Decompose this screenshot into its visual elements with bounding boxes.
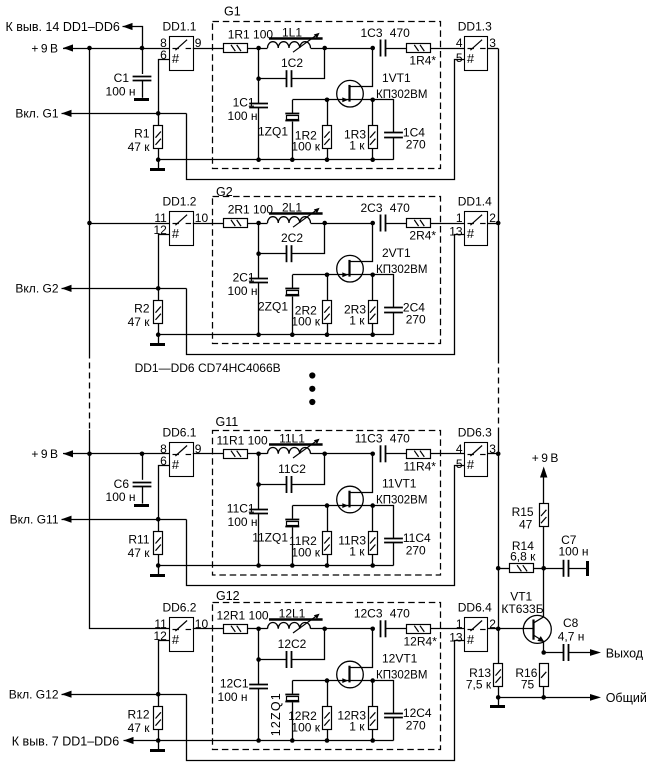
wire +9V rail to G11 row — [89, 430, 91, 454]
svg-text:R1: R1 — [134, 127, 150, 141]
transistor 11VT1 KP302VM (JFET) — [337, 486, 364, 513]
wire 2C1 to ground rail — [258, 283, 260, 335]
transistor 2VT1 KP302VM (JFET) — [337, 255, 364, 282]
oscillator block G12 dashed outline — [213, 603, 441, 750]
svg-text:13: 13 — [449, 225, 463, 239]
node emitter/C8/R16 junction — [541, 650, 546, 655]
wire block G1 ground rail — [158, 159, 393, 161]
inductor 12L1 adjustment arrow — [293, 615, 318, 633]
wire 12R4 to DD6.4 pin 1 — [431, 628, 465, 630]
wire 11R4 to DD6.3 pin 4 — [431, 453, 465, 455]
svg-text:11ZQ1: 11ZQ1 — [252, 530, 288, 544]
capacitor 1C3 470 — [380, 40, 382, 57]
svg-text:R12: R12 — [127, 708, 149, 722]
capacitor 2C4 270 — [384, 307, 403, 309]
wire 2R2 top lead — [327, 275, 329, 301]
off-page arrow Вкл. G12 — [62, 691, 72, 698]
wire DD6.3 output pin 3 to bus — [487, 453, 498, 455]
svg-text:100 н: 100 н — [106, 490, 136, 504]
svg-text:11C1: 11C1 — [227, 501, 255, 515]
node drain/1C3 junction — [370, 46, 375, 51]
node 2ZQ1/rail junction — [290, 332, 295, 337]
node R11/ground-rail junction — [156, 563, 161, 568]
analog switch DD6.3 — [465, 443, 488, 477]
wire 11R2 top lead — [327, 506, 329, 531]
wire 2R4 to DD1.4 pin 1 — [431, 223, 465, 225]
svg-text:1 к: 1 к — [349, 139, 365, 153]
svg-text:КП302ВМ: КП302ВМ — [376, 670, 427, 682]
node A gate/2R2 junction — [325, 273, 330, 278]
node enable/R12 junction — [156, 692, 161, 697]
svg-text:5: 5 — [456, 457, 463, 471]
wire 1R2 top lead — [327, 100, 329, 126]
svg-text:G2: G2 — [216, 185, 233, 199]
node enable/R11 junction — [156, 517, 161, 522]
svg-text:100 к: 100 к — [291, 546, 320, 560]
wire enable G1 routing to DD1.3 control pin 5 — [187, 60, 465, 180]
resistor R14 6.8k — [498, 568, 509, 570]
capacitor 1C1 100n — [249, 103, 268, 105]
svg-text:DD6.4: DD6.4 — [458, 600, 492, 614]
wire VT1 base lead — [498, 628, 533, 630]
svg-text:12R4*: 12R4* — [404, 634, 438, 648]
svg-text:DD6.1: DD6.1 — [162, 425, 196, 439]
svg-text:+ 9 В: + 9 В — [31, 41, 58, 55]
wire crystal 11ZQ1 to rail — [292, 527, 294, 565]
wire common rail — [498, 697, 590, 699]
node coil/11C2 junction — [322, 452, 327, 457]
svg-text:R11: R11 — [128, 533, 149, 547]
resistor 12R1 100 — [224, 625, 248, 634]
ground symbol below R11 — [158, 566, 160, 575]
wire +9V rail from G11 down to DD6.2 pin 11 — [90, 454, 170, 629]
svg-text:12R1 100: 12R1 100 — [217, 609, 269, 623]
svg-text:47 к: 47 к — [128, 140, 151, 154]
inductor 2L1 core bar — [269, 212, 323, 214]
wire gate line to crystal 1ZQ1 — [293, 99, 328, 101]
wire crystal 2ZQ1 to rail — [292, 297, 294, 335]
svg-text:47 к: 47 к — [128, 721, 151, 735]
off-page arrow + 9 В (row G1) — [63, 44, 73, 51]
ellipsis dots (continuation) — [309, 372, 315, 378]
node A gate/1R2 junction — [325, 98, 330, 103]
node 2R3/rail junction — [370, 332, 375, 337]
node 11C1/rail junction — [256, 563, 261, 568]
wire 1C1 branch down — [258, 48, 260, 103]
node R1/ground-rail junction — [156, 157, 161, 162]
svg-text:5: 5 — [456, 51, 463, 65]
wire 12C4 to rail — [393, 718, 395, 741]
node 11R2/rail junction — [325, 563, 330, 568]
resistor R13 7.5k — [494, 664, 503, 687]
svg-text:DD6.2: DD6.2 — [162, 600, 196, 614]
svg-text:DD1.2: DD1.2 — [162, 195, 196, 209]
node coil/12C2 junction — [322, 627, 327, 632]
svg-text:1R1 100: 1R1 100 — [228, 28, 274, 42]
off-page arrow К выв. 7 — [124, 737, 134, 744]
wire 2C3 to 2R4 — [386, 223, 407, 225]
resistor 12R3 1k — [369, 707, 378, 730]
ground symbol below R12 — [158, 741, 160, 750]
ground symbol on common rail — [498, 697, 500, 705]
svg-text:#: # — [467, 632, 475, 647]
crystal 2ZQ1 — [285, 288, 299, 290]
wire DD6.1 control pin to enable node — [159, 466, 170, 520]
wire bus to R13 — [498, 629, 500, 663]
oscillator block G2 dashed outline — [213, 197, 441, 344]
wire +9V rail dashed continuation — [89, 353, 91, 431]
wire coil to 2C3 node — [311, 223, 373, 225]
wire 11R3 top lead — [372, 506, 374, 531]
wire 12C2 right lead and riser — [292, 629, 325, 660]
svg-text:#: # — [172, 632, 180, 647]
resistor 2R2 100k — [323, 301, 332, 324]
resistor R16 75 — [540, 664, 549, 687]
svg-text:Вкл. G2: Вкл. G2 — [15, 282, 58, 296]
svg-text:100 н: 100 н — [228, 515, 258, 529]
node 12R3/rail junction — [370, 738, 375, 743]
wire 12R2 top lead — [327, 681, 329, 707]
wire output bus (solid lower) — [498, 434, 500, 629]
crystal 12ZQ1 — [285, 694, 299, 696]
analog switch DD6.2 — [170, 618, 194, 652]
svg-text:100 н: 100 н — [218, 690, 248, 704]
wire gate line to crystal 2ZQ1 — [293, 274, 328, 276]
resistor R15 47 — [540, 504, 549, 527]
svg-text:1C3: 1C3 — [360, 26, 382, 40]
wire 12C2 left lead — [259, 659, 287, 661]
capacitor 12C1 100n — [249, 684, 268, 686]
wire collector riser — [543, 568, 545, 617]
svg-text:13: 13 — [449, 631, 463, 645]
svg-text:G12: G12 — [216, 589, 240, 603]
node enable/R2 junction — [156, 286, 161, 291]
node 1R3/rail junction — [370, 157, 375, 162]
inductor 11L1 core bar — [269, 443, 323, 445]
svg-text:47 к: 47 к — [128, 315, 151, 329]
wire 12C1 to ground rail — [258, 689, 260, 741]
wire gate node to source node (through 2VT1) — [327, 274, 373, 276]
node R12/ground-rail junction — [156, 738, 161, 743]
node R16/common rail — [541, 695, 546, 700]
wire node B to 12C4 — [373, 681, 394, 714]
wire 2C1 branch down — [258, 223, 260, 278]
node bus/DD1.4 pin 2 — [496, 221, 501, 226]
svg-text:Вкл. G12: Вкл. G12 — [9, 688, 59, 702]
wire gate line to crystal 12ZQ1 — [293, 680, 328, 682]
node A gate/11R2 junction — [325, 503, 330, 508]
capacitor 11C4 270 — [384, 538, 403, 540]
svg-text:11VT1: 11VT1 — [382, 477, 417, 491]
off-page arrow Вкл. G1 — [62, 110, 72, 117]
node +9V rail corner at G2 — [87, 221, 92, 226]
svg-text:11R1 100: 11R1 100 — [217, 434, 268, 448]
wire DD1.1 control pin to enable node — [159, 60, 170, 114]
svg-text:11R4*: 11R4* — [404, 459, 437, 473]
svg-text:47: 47 — [519, 518, 533, 532]
wire 1C2 right lead and riser — [292, 49, 325, 79]
wire 12R1 to coil node — [248, 628, 268, 630]
svg-text:12L1: 12L1 — [279, 606, 306, 620]
analog switch DD6.4 — [465, 618, 488, 652]
svg-text:7,5 к: 7,5 к — [466, 678, 492, 692]
capacitor C8 4.7n — [544, 652, 564, 654]
ground symbol below R2 — [158, 335, 160, 344]
svg-text:100 н: 100 н — [228, 284, 258, 298]
ground symbol below C6 — [134, 504, 149, 507]
capacitor 12C3 470 — [380, 620, 382, 637]
svg-text:470: 470 — [390, 432, 410, 446]
svg-text:К выв. 14 DD1–DD6: К выв. 14 DD1–DD6 — [6, 20, 120, 34]
svg-text:К выв. 7 DD1–DD6: К выв. 7 DD1–DD6 — [12, 735, 119, 749]
chassis terminator bar after C7 — [586, 561, 589, 576]
node 1R2/rail junction — [325, 157, 330, 162]
svg-text:G11: G11 — [216, 415, 239, 429]
node coil/1C2 junction — [322, 46, 327, 51]
transistor 12VT1 KP302VM (JFET) — [337, 661, 364, 688]
wire 1C2 left lead — [259, 78, 287, 80]
capacitor 12C4 270 — [384, 713, 403, 715]
node bus/VT1 base junction — [496, 627, 501, 632]
svg-text:1: 1 — [456, 211, 463, 225]
wire enable G12 horizontal — [62, 694, 187, 696]
resistor R2 47k — [158, 288, 160, 300]
inductor 11L1 adjustment arrow — [293, 440, 318, 458]
node drain/12C3 junction — [370, 627, 375, 632]
wire DD1.1 pin 9 to 1R1 — [193, 48, 224, 50]
resistor R11 47k — [158, 519, 160, 531]
wire 2R1 to coil node — [248, 223, 268, 225]
crystal 1ZQ1 — [285, 113, 299, 115]
wire enable G2 routing to DD1.4 control pin 13 — [187, 235, 465, 355]
wire 1R3 top lead — [372, 100, 374, 126]
node enable/R1 junction — [156, 111, 161, 116]
off-page arrow Вкл. G11 — [62, 516, 72, 523]
wire output bus (solid upper) — [498, 49, 500, 358]
node R2/ground-rail junction — [156, 332, 161, 337]
svg-text:1C2: 1C2 — [281, 56, 303, 70]
analog switch DD1.3 — [465, 37, 488, 71]
capacitor C6 100n — [142, 454, 144, 480]
svg-text:12C2: 12C2 — [278, 637, 307, 651]
svg-text:6,8 к: 6,8 к — [510, 550, 536, 564]
resistor 11R3 1k — [369, 532, 378, 555]
ground symbol below C1 — [134, 98, 149, 101]
inductor 12L1 — [268, 623, 311, 629]
oscillator block G11 dashed outline — [213, 431, 441, 576]
resistor 1R2 100k — [323, 126, 332, 149]
wire DD1.4 output pin 2 to bus — [487, 223, 498, 225]
off-page arrow Общий — [590, 694, 601, 701]
wire +9V rail to DD1.2 pin 11 — [89, 49, 91, 353]
svg-text:Вкл. G1: Вкл. G1 — [15, 107, 58, 121]
svg-text:12C3: 12C3 — [354, 607, 383, 621]
node C6 tap — [140, 452, 145, 457]
node 12C1/rail junction — [256, 738, 261, 743]
wire DD1.3 output pin 3 to bus — [487, 48, 498, 50]
inductor 12L1 core bar — [269, 618, 323, 620]
wire 1C3 to 1R4 — [386, 48, 407, 50]
wire 1R3 bottom lead — [372, 149, 374, 160]
resistor 11R2 100k — [323, 532, 332, 555]
wire 2R3 top lead — [372, 275, 374, 301]
wire 12R3 top lead — [372, 681, 374, 707]
node 12ZQ1/rail junction — [290, 738, 295, 743]
resistor 2R4* — [407, 219, 431, 228]
wire DD6.2 control pin to enable node — [159, 641, 170, 695]
wire coil to 12C3 node — [311, 628, 373, 630]
node 1R1/1C1 junction — [256, 46, 261, 51]
svg-text:1 к: 1 к — [349, 314, 365, 328]
node +9V rail junction (G1) — [87, 46, 92, 51]
inductor 1L1 — [268, 42, 311, 48]
wire coil to 1C3 node — [311, 48, 373, 50]
wire К выв. 7 to G12 ground rail — [124, 740, 159, 742]
wire 1R2 bottom lead — [327, 149, 329, 160]
node 1ZQ1/rail junction — [290, 157, 295, 162]
svg-text:C8: C8 — [563, 616, 579, 630]
wire 11C4 to rail — [393, 543, 395, 566]
wire 1C1 to ground rail — [258, 108, 260, 160]
svg-text:4,7 н: 4,7 н — [558, 630, 585, 644]
wire 2R2 bottom lead — [327, 324, 329, 335]
svg-text:DD1.4: DD1.4 — [458, 195, 492, 209]
svg-text:100 к: 100 к — [291, 721, 320, 735]
wire coil to 11C3 node — [311, 453, 373, 455]
wire 2R3 bottom lead — [372, 324, 374, 335]
wire 11C1 to ground rail — [258, 514, 260, 566]
resistor 1R1 100 — [224, 44, 248, 53]
node +9V rail junction (G11) — [87, 452, 92, 457]
capacitor 11C3 470 — [380, 445, 382, 462]
svg-text:2ZQ1: 2ZQ1 — [258, 300, 288, 314]
wire gate node to source node (through 11VT1) — [327, 505, 373, 507]
capacitor 11C2 — [286, 476, 288, 493]
node collector/R15/R14/C7 junction — [541, 566, 546, 571]
svg-text:2R4*: 2R4* — [409, 229, 436, 243]
capacitor C1 100n — [142, 48, 144, 74]
svg-text:4: 4 — [456, 442, 463, 456]
analog switch DD1.1 — [170, 37, 194, 71]
inductor 2L1 — [268, 217, 311, 223]
node drain/2C3 junction — [370, 221, 375, 226]
wire 12C1 branch down — [258, 629, 260, 684]
svg-text:#: # — [467, 226, 475, 241]
svg-text:270: 270 — [406, 138, 426, 152]
svg-text:1 к: 1 к — [349, 720, 365, 734]
svg-text:+ 9 В: + 9 В — [532, 451, 559, 465]
node C1 tap — [140, 46, 145, 51]
svg-text:DD1—DD6 CD74HC4066B: DD1—DD6 CD74HC4066B — [135, 361, 281, 375]
wire block G11 ground rail — [158, 565, 393, 567]
resistor 12R4* — [407, 625, 431, 634]
svg-text:C1: C1 — [114, 71, 130, 85]
svg-text:#: # — [172, 226, 180, 241]
node 12R1/12C1 junction — [256, 627, 261, 632]
wire VT1 emitter riser — [543, 642, 545, 653]
svg-text:2C1: 2C1 — [233, 271, 255, 285]
svg-text:100 к: 100 к — [291, 315, 320, 329]
inductor 11L1 — [268, 448, 311, 454]
svg-text:12ZQ1: 12ZQ1 — [269, 692, 283, 736]
svg-text:R2: R2 — [134, 302, 150, 316]
svg-text:1: 1 — [456, 617, 463, 631]
resistor R12 47k — [158, 694, 160, 706]
resistor 11R4* — [407, 450, 431, 459]
node 2R2/rail junction — [325, 332, 330, 337]
wire node B to 1C4 — [373, 100, 394, 133]
node A gate/12R2 junction — [325, 678, 330, 683]
svg-text:+ 9 В: + 9 В — [31, 447, 58, 461]
wire К выв. 14 to +9V line — [123, 27, 143, 49]
svg-text:1VT1: 1VT1 — [382, 71, 411, 85]
svg-text:12C1: 12C1 — [220, 676, 249, 690]
wire 11R2 bottom lead — [327, 554, 329, 565]
node B source/12R3 junction — [370, 678, 375, 683]
resistor 11R1 100 — [224, 450, 248, 459]
off-page arrow + 9 В (row G11) — [63, 450, 73, 457]
analog switch DD1.2 — [170, 212, 194, 246]
svg-text:#: # — [172, 51, 180, 66]
capacitor 2C2 — [286, 245, 288, 262]
wire DD1.2 pin 10 to 2R1 — [193, 223, 224, 225]
svg-text:270: 270 — [406, 313, 426, 327]
wire enable G12 routing to DD6.4 control pin 13 — [187, 641, 465, 761]
capacitor 2C3 470 — [380, 215, 382, 232]
wire DD6.4 output pin 2 to bus — [487, 628, 498, 630]
svg-text:100 к: 100 к — [291, 140, 320, 154]
capacitor 2C1 100n — [249, 278, 268, 280]
node B source/11R3 junction — [370, 503, 375, 508]
svg-text:DD1.1: DD1.1 — [162, 20, 196, 34]
power arrow up + 9 В — [540, 467, 547, 478]
svg-text:270: 270 — [406, 544, 426, 558]
capacitor C7 100n — [544, 568, 564, 570]
wire 2C2 left lead — [259, 253, 287, 255]
node 1C2 tee — [256, 76, 261, 81]
wire node B to 11C4 — [373, 506, 394, 539]
resistor 1R4* — [407, 44, 431, 53]
svg-text:47 к: 47 к — [128, 546, 151, 560]
capacitor 1C2 — [286, 70, 288, 87]
svg-text:100 н: 100 н — [106, 84, 136, 98]
wire DD6.1 pin 9 to 11R1 — [193, 453, 224, 455]
svg-text:2C3: 2C3 — [360, 201, 382, 215]
off-page arrow Выход — [590, 649, 601, 656]
svg-text:G1: G1 — [224, 5, 241, 19]
wire 1C4 to rail — [393, 137, 395, 160]
svg-text:11L1: 11L1 — [279, 431, 305, 445]
svg-text:4: 4 — [456, 36, 463, 50]
inductor 2L1 adjustment arrow — [293, 209, 318, 227]
wire crystal 1ZQ1 to rail — [292, 122, 294, 160]
svg-text:470: 470 — [390, 201, 410, 215]
wire block G12 ground rail — [158, 740, 393, 742]
node coil/2C2 junction — [322, 221, 327, 226]
svg-text:12VT1: 12VT1 — [382, 652, 418, 666]
wire 2C4 to rail — [393, 312, 395, 335]
resistor 2R1 100 — [224, 219, 248, 228]
svg-text:11C2: 11C2 — [278, 462, 306, 476]
svg-text:75: 75 — [521, 678, 535, 692]
wire 11C2 left lead — [259, 484, 287, 486]
capacitor 1C4 270 — [384, 132, 403, 134]
inductor 1L1 adjustment arrow — [293, 34, 318, 52]
node B source/2R3 junction — [370, 273, 375, 278]
transistor 1VT1 KP302VM (JFET) — [337, 80, 364, 107]
svg-text:470: 470 — [390, 607, 410, 621]
node 11R1/11C1 junction — [256, 452, 261, 457]
